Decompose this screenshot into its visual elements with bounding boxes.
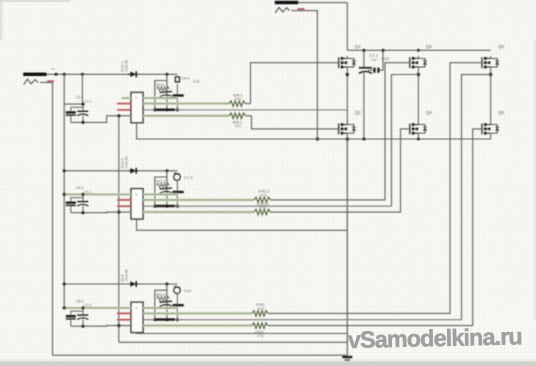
capacitor bar on phase row ch1	[155, 108, 175, 111]
svg-text:C9-3: C9-3	[84, 303, 92, 307]
resistor 47R2-2 (Q4 gate)	[254, 209, 271, 214]
wire sub vert ch2	[166, 171, 168, 206]
wire U1 ground leg	[137, 123, 348, 139]
op-amp driver IC U1	[131, 92, 143, 122]
transistor Q6 (MOSFET)	[482, 122, 499, 134]
transistor Q4 (MOSFET)	[410, 122, 427, 134]
resistor R-sub ch1	[157, 87, 170, 91]
node bus tap U2	[117, 210, 120, 213]
node phase Q1/Q2	[346, 73, 349, 76]
svg-text:42Ω: 42Ω	[235, 97, 242, 101]
svg-text:1N4148: 1N4148	[125, 270, 129, 282]
wire phase column Q5/Q6	[490, 67, 492, 125]
resistor 47R2 (Q6 gate)	[252, 323, 268, 328]
wire U1 vcc stub	[122, 97, 132, 99]
svg-text:Q1: Q1	[355, 44, 361, 49]
wire sub vert ch1	[166, 74, 168, 110]
wire diode out loop ch2	[139, 170, 178, 172]
wire Q5 gate run	[268, 63, 482, 314]
wire diode out loop ch3	[139, 283, 178, 285]
svg-text:C7-2: C7-2	[184, 175, 192, 180]
svg-text:47Ω: 47Ω	[259, 206, 266, 210]
connector J1 (power jack, left)	[23, 73, 46, 85]
wire Q3 gate run	[271, 63, 410, 200]
wire sub vert ch3	[166, 284, 168, 320]
wire red input stub U3 b	[117, 319, 131, 321]
svg-text:C5-2: C5-2	[76, 186, 84, 190]
wire phase return ch3	[143, 319, 462, 321]
node C16 top	[381, 49, 384, 52]
svg-text:+v: +v	[51, 67, 55, 71]
wire red input stub U2 b	[117, 205, 131, 207]
wire phase column Q1/Q2	[346, 67, 348, 125]
svg-text:42Ω: 42Ω	[235, 124, 242, 128]
capacitor bar ch1	[173, 84, 184, 110]
wire U3 pin y1 right	[143, 307, 178, 309]
svg-text:C1-1: C1-1	[370, 53, 379, 58]
svg-text:Q4: Q4	[426, 110, 432, 115]
op-amp driver IC U3	[131, 302, 143, 332]
resistor R-sub ch3	[157, 297, 170, 301]
svg-text:C10: C10	[184, 288, 192, 293]
svg-text:Q6: Q6	[498, 110, 504, 115]
wire phase return ch2	[143, 205, 392, 207]
transistor Q2 (MOSFET)	[339, 122, 356, 134]
resistor 42R-1 (Q1 gate)	[229, 101, 246, 106]
node rail/gnd	[346, 137, 349, 140]
wire U2 pin y1 right	[143, 193, 178, 195]
svg-text:C6-2: C6-2	[84, 190, 92, 194]
capacitor sub filter ch3	[160, 301, 173, 307]
capacitor C16	[368, 50, 383, 73]
capacitor group ch2 (C filter pair)	[64, 194, 131, 212]
diode D13-2	[128, 168, 139, 174]
node C1-1 bottom	[362, 137, 365, 140]
wire U3 ground leg	[137, 333, 348, 334]
resistor 47R1-2 (Q3 gate)	[254, 197, 271, 202]
wire red input stub U2 a	[117, 199, 131, 201]
wire phase column Q3/Q4	[417, 67, 419, 125]
node bus64/D13-2	[63, 169, 66, 172]
wire red input stub U3 a	[117, 312, 131, 314]
node Q3 on rail	[417, 49, 420, 52]
svg-text:C2-1: C2-1	[76, 96, 84, 100]
wire red input stub U1 b	[117, 109, 131, 111]
wire U3 pin to bus	[119, 325, 131, 327]
svg-text:C8-3: C8-3	[76, 299, 84, 303]
svg-text:47Ω: 47Ω	[260, 194, 267, 198]
wire outer ground rail	[53, 354, 348, 356]
capacitor bar ch2	[173, 180, 184, 206]
wire gate row lo ch1	[143, 115, 229, 118]
svg-text:Q2: Q2	[355, 110, 361, 115]
wire gate row lo ch3	[143, 324, 252, 327]
capacitor sub filter ch1	[160, 92, 173, 98]
node phase Q3/Q4	[417, 73, 420, 76]
capacitor C1-1 (bulk 1uF)	[359, 50, 372, 139]
wire J2- down to ground rail	[316, 11, 318, 139]
red polarity mark J2	[298, 8, 305, 10]
connector J2 (power jack, top)	[275, 1, 298, 13]
svg-text:Q3: Q3	[426, 44, 432, 49]
node +V junction	[54, 73, 57, 76]
wire red input stub U1 a	[117, 103, 131, 105]
svg-text:C1-1: C1-1	[84, 100, 92, 104]
capacitor C4-1 (small box)	[175, 77, 179, 82]
wire phase link ch3	[462, 75, 491, 320]
svg-text:vSamodelkina.ru: vSamodelkina.ru	[348, 323, 523, 353]
svg-text:1uF: 1uF	[371, 58, 378, 62]
diode D12-1	[128, 71, 139, 77]
wire +V (J1 to D12-1)	[47, 73, 130, 75]
capacitor bar ch3	[173, 293, 184, 319]
wire +V top rail	[347, 49, 490, 51]
svg-text:R22-3: R22-3	[156, 293, 166, 297]
wire down to +V rail	[346, 3, 348, 51]
capacitor group ch1 (C filter pair)	[64, 74, 119, 122]
wire gate row hi ch1	[143, 102, 229, 105]
wire bus64 to D14	[64, 283, 130, 285]
node J2- on rail	[316, 137, 319, 140]
wire U1 pin to bus	[119, 115, 131, 117]
wire ground bus (x52)	[52, 82, 54, 355]
wire sub loop ch1	[155, 81, 167, 110]
svg-text:1N4148: 1N4148	[125, 156, 129, 168]
svg-text:ic: ic	[135, 306, 138, 310]
wire gate row lo ch2	[143, 211, 254, 214]
red polarity mark J1	[47, 80, 54, 82]
wire gate row hi ch2	[143, 199, 254, 202]
wire main ground drop	[346, 139, 348, 355]
transistor Q5 (MOSFET)	[482, 56, 499, 68]
wire bus64 to D13-2	[64, 170, 130, 172]
resistor 42R-2 (Q2 gate)	[229, 113, 246, 118]
capacitor bar on phase row ch3	[155, 318, 175, 321]
wire inner ground rail	[119, 341, 347, 343]
node C1-1 top	[362, 49, 365, 52]
wire Q6 source to ground rail	[490, 133, 492, 139]
wire diode out loop ch1	[139, 73, 178, 75]
wire phase link ch2	[392, 75, 419, 207]
node bus64 tap	[63, 73, 66, 76]
node bus tap U1	[117, 114, 120, 117]
wire R out to Q1 gate	[246, 103, 251, 105]
node bus64/ch2 vcc	[63, 193, 66, 196]
svg-text:1N4148: 1N4148	[125, 60, 129, 72]
diode D14	[128, 281, 139, 287]
op-amp driver IC U2	[131, 189, 143, 219]
jack J1 sleeve hook	[40, 82, 53, 86]
node bus64/ch3 vcc	[63, 306, 66, 309]
ground symbol	[342, 357, 352, 360]
wire Q4 source to ground rail	[417, 133, 419, 139]
node phase Q5/Q6	[489, 73, 492, 76]
svg-text:47Ω: 47Ω	[258, 307, 265, 311]
svg-text:C4-1: C4-1	[182, 76, 190, 81]
resistor 47R1 (Q5 gate)	[252, 311, 268, 316]
node bus64/D14	[63, 282, 66, 285]
wire R out to Q2 gate	[246, 115, 252, 117]
svg-text:C16: C16	[382, 56, 390, 61]
transistor Q3 (MOSFET)	[410, 56, 427, 68]
wire Q2 gate run	[252, 116, 339, 129]
capacitor group ch3 (C filter pair)	[64, 308, 131, 326]
wire bridge ground rail	[137, 138, 491, 140]
wire sub loop ch2	[155, 177, 167, 206]
resistor R-sub ch2	[157, 183, 170, 187]
wire +V bus (x64)	[63, 74, 65, 308]
svg-text:R12-3: R12-3	[156, 180, 166, 184]
svg-text:47Ω: 47Ω	[257, 334, 264, 338]
node bus tap U3	[117, 324, 120, 327]
wire U2 ground leg	[137, 219, 348, 230]
wire J2+ to bridge rail	[298, 2, 347, 4]
node Q4 on rail	[417, 138, 420, 141]
wire IC common bus (x119)	[118, 116, 120, 342]
wire Q4 gate run	[271, 129, 410, 212]
svg-text:ic: ic	[135, 193, 138, 197]
capacitor C7-2 (electrolytic)	[174, 173, 181, 180]
wire Q1 gate run	[251, 63, 339, 104]
node ch1 cap tap	[81, 73, 84, 76]
capacitor sub filter ch2	[160, 188, 173, 194]
svg-text:R2-8: R2-8	[156, 83, 164, 87]
wire Q2 source to ground rail	[346, 133, 348, 139]
capacitor bar on phase row ch2	[155, 205, 175, 208]
wire U1 pin y1 right	[143, 97, 178, 99]
svg-text:(C4): (C4)	[193, 80, 200, 84]
svg-text:ic: ic	[135, 96, 138, 100]
watermark vSamodelkina.ru	[348, 323, 523, 353]
svg-text:Q5: Q5	[498, 44, 504, 49]
capacitor C10 (electrolytic)	[174, 286, 181, 293]
wire phase return ch1	[143, 109, 347, 111]
wire gate row hi ch3	[143, 312, 252, 315]
wire Q6 gate run	[268, 129, 482, 326]
jack J2 sleeve hook	[292, 11, 318, 14]
wire U2 pin to bus	[119, 211, 131, 213]
transistor Q1 (MOSFET)	[339, 56, 356, 68]
decorative edges	[0, 362, 536, 366]
wire sub loop ch3	[155, 290, 167, 320]
